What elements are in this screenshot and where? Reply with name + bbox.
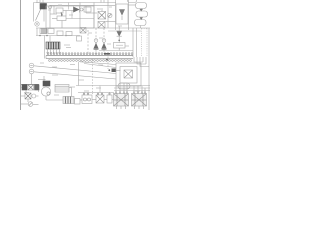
wire dashed drop right: [107, 57, 109, 70]
fuse F2: [48, 29, 54, 34]
relay K9 crossed box: [25, 93, 31, 99]
wire double verticals right: [132, 28, 134, 57]
connector P4 stadium: [118, 83, 130, 89]
switch S1 lever box: [33, 3, 35, 22]
connector terminal E2: [29, 69, 34, 74]
connector X1 strip rails: [46, 55, 133, 57]
relay K3 crossed box: [98, 12, 106, 20]
wire bottom rail: [73, 99, 76, 101]
relay K3b crossed box: [98, 22, 105, 29]
wire dashed drop bottom: [92, 93, 94, 95]
resistor R5 box: [75, 99, 81, 105]
wire bottom long rail: [76, 85, 150, 87]
IC U2 hatched block: [46, 42, 60, 49]
diode module V1 box: [116, 4, 128, 24]
relay K6 crossed box: [96, 95, 104, 103]
connector terminal E1: [29, 63, 34, 68]
wire motor drop: [45, 96, 47, 100]
terminal loops K8: [133, 92, 135, 94]
fuse block cap rail: [21, 83, 39, 85]
wire dashed verticals center: [87, 30, 89, 54]
pin leads U2: [47, 49, 49, 54]
pin leads bottom modules: [83, 92, 85, 95]
wire bottom connections: [80, 99, 82, 101]
fuse block F3 dark: [22, 85, 27, 90]
terminal T1 circle: [32, 94, 36, 98]
control unit U1 outer frame: [46, 6, 94, 28]
switch S1 contact block: [35, 22, 39, 26]
wire left strip edge: [44, 36, 46, 59]
wire nested box inner: [120, 67, 137, 84]
relay module K8 hatched: [132, 94, 147, 107]
wire top rail second: [50, 4, 115, 6]
wire top rail: [36, 2, 116, 4]
wire U3 drop: [69, 87, 72, 89]
wire cluster ticks: [25, 90, 27, 93]
fuse block F4 crossed: [28, 85, 34, 90]
potentiometer R1: [57, 16, 66, 21]
relay module K7 hatched: [114, 94, 129, 107]
diode D2 down: [118, 26, 120, 31]
fuse F1 hatched: [40, 29, 47, 34]
connector X1 pin loops top: [47, 53, 133, 62]
wire Q2 out: [99, 50, 116, 52]
wire U1 interior detail: [53, 6, 55, 14]
relay K5 crossed box: [124, 70, 133, 78]
fuse block F5 dark: [35, 85, 40, 90]
wire right edge: [148, 28, 150, 110]
wire switch to bus: [36, 28, 38, 36]
lamp L1: [108, 13, 112, 17]
resistor R8 box: [84, 7, 91, 12]
wire sloped harness B: [34, 72, 116, 79]
regulator U3 box: [55, 85, 69, 93]
label speckles: [24, 5, 140, 95]
wire stadium links with arrows: [140, 9, 142, 12]
relay K1 dark coil box: [40, 4, 47, 10]
terminal T2 circle: [28, 102, 33, 107]
wire mid verticals: [79, 3, 81, 29]
terminal circle small: [48, 5, 51, 8]
wire left margin vertical bus: [20, 0, 22, 110]
wire harness comb right: [134, 57, 143, 62]
wire dotted verticals right: [141, 29, 143, 58]
sensor B1 box with eyelets: [82, 95, 92, 104]
resistor R3 small box: [80, 28, 86, 34]
diode D1: [74, 7, 80, 12]
pin stubs K8 bottom: [134, 106, 136, 109]
pin stubs K7 bottom: [116, 106, 118, 109]
connector P0 stadium partial: [128, 0, 137, 3]
wire U2 top lead: [49, 36, 51, 42]
wire harness left leads: [80, 62, 116, 65]
pin number dots: [46, 51, 63, 53]
transistor Q1: [94, 39, 98, 43]
node heavy junction on strip: [104, 53, 110, 55]
switch S1 lever arm: [36, 4, 44, 21]
resistor R4 hatched box: [63, 97, 74, 104]
resistor R9 flat box: [114, 43, 126, 49]
terminal loops K7: [115, 92, 117, 94]
wire top entry stubs: [36, 0, 38, 3]
wire dashed drop center: [92, 59, 94, 92]
resistor R7 box on bus: [66, 32, 72, 36]
node junction dots: [39, 35, 41, 37]
wire sub rail right: [108, 30, 141, 32]
connector P1 stadium: [136, 3, 147, 9]
node sensor tap: [112, 69, 117, 73]
capacitor C1 dark block: [43, 81, 50, 86]
diode V1 symbol: [120, 10, 125, 16]
connector P3 stadium: [135, 20, 147, 26]
terminal loops modules: [83, 93, 110, 95]
wire drops to relays: [115, 86, 117, 92]
wire pot output: [66, 18, 94, 20]
wire sloped harness A: [34, 66, 116, 74]
wire block links: [21, 87, 23, 89]
wire R9 to bus: [116, 50, 133, 52]
resistor R2 open box: [57, 31, 63, 36]
wire pot stubs: [61, 21, 63, 29]
wire right verticals: [115, 0, 117, 30]
wire U1 inner vertical: [49, 6, 51, 28]
transistor Q2: [102, 39, 106, 43]
wire motor feed: [38, 79, 46, 81]
connector P2 stadium: [136, 11, 148, 17]
wire bus y35.5: [36, 35, 80, 37]
wire module rail: [78, 92, 114, 94]
motor M1: [41, 87, 50, 96]
wire main horizontal bus y28: [36, 27, 150, 29]
wire left drop to rail: [78, 62, 80, 86]
relay K2 coil: [56, 8, 63, 13]
wire nested box outer: [116, 63, 141, 86]
connector X1 pin loops bottom: [49, 60, 51, 62]
resistor R6 narrow box: [107, 95, 112, 103]
